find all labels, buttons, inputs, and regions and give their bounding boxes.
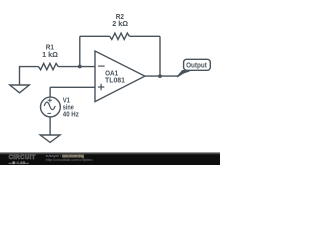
node: output junction xyxy=(158,74,162,78)
output flag box xyxy=(184,59,211,70)
op-amp plus symbol xyxy=(98,84,104,90)
op-amp minus symbol xyxy=(98,65,105,67)
watermark caption line 1 xyxy=(46,155,84,159)
watermark bar xyxy=(0,152,220,165)
wire: op-amp non-inverting input xyxy=(50,86,95,88)
wire: R2 to right corner xyxy=(129,35,160,37)
resistor R1 xyxy=(39,63,59,69)
watermark caption line 2 xyxy=(46,159,93,163)
V1 minus polarity xyxy=(48,112,52,114)
svg-text:40 Hz: 40 Hz xyxy=(63,110,79,119)
voltage source V1 xyxy=(41,97,61,117)
wire: feedback vertical up xyxy=(79,36,81,66)
svg-text:2 kΩ: 2 kΩ xyxy=(112,19,128,28)
wire: left ground up to R1 row xyxy=(20,67,39,85)
V1 sine symbol xyxy=(44,102,55,110)
ground (below V1) xyxy=(40,135,60,142)
output flag tail xyxy=(177,71,190,77)
svg-text:Output: Output xyxy=(186,61,207,70)
svg-text:1 kΩ: 1 kΩ xyxy=(42,50,58,59)
node: inverting input junction xyxy=(78,65,82,69)
CircuitLab logo xyxy=(9,156,51,166)
wire: V1 bottom lead xyxy=(49,117,51,135)
V1 plus polarity xyxy=(48,98,52,102)
resistor R2 xyxy=(110,33,130,39)
ground (left) xyxy=(10,85,30,93)
op-amp OA1 xyxy=(95,51,145,102)
wire: feedback top to R2 xyxy=(80,35,110,37)
svg-text:TL081: TL081 xyxy=(105,76,125,85)
wire: op-amp output xyxy=(145,75,178,77)
wire: R1 to op-amp inverting input xyxy=(58,66,95,68)
wire: V1 top lead xyxy=(49,87,51,97)
wire: vertical down to output node xyxy=(159,36,161,76)
